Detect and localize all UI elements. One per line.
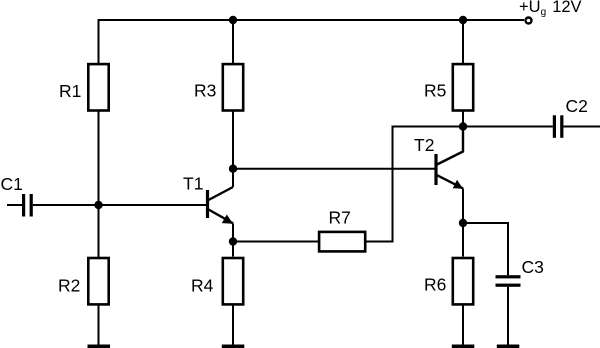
node: T1 emitter junction [229, 237, 237, 245]
svg-text:C1: C1 [1, 174, 23, 194]
ground (R4) [222, 345, 245, 348]
node: rail/R5 junction [459, 16, 467, 24]
svg-text:R7: R7 [329, 208, 351, 228]
ground (R6) [452, 345, 475, 348]
wire: output node to C2 [463, 126, 553, 128]
wire: T1 emitter to emitter node [232, 223, 234, 241]
node: rail/R3 junction [229, 16, 237, 24]
wire: R1 to input node [98, 111, 100, 205]
wire: C3 bottom lead [507, 287, 509, 345]
svg-text:R5: R5 [424, 81, 446, 101]
wire: emitter node to R7 [233, 241, 318, 243]
wire: R7 to output node feedback [367, 127, 464, 242]
wire: R3 to T1 collector node [232, 112, 234, 188]
svg-text:R6: R6 [424, 275, 446, 295]
svg-text:T1: T1 [183, 174, 203, 194]
svg-text:T2: T2 [414, 135, 434, 155]
resistor R3 [223, 64, 243, 110]
svg-text:C2: C2 [566, 96, 588, 116]
wire: rail to R3 [232, 19, 234, 63]
transistor T1 collector lead [209, 187, 234, 200]
svg-text:R3: R3 [194, 81, 216, 101]
wire: T2 emitter to emitter node [462, 188, 464, 223]
transistor T1 base bar [206, 190, 209, 218]
wire: C1 to input node [33, 204, 99, 206]
resistor R2 [88, 258, 108, 304]
capacitor C1 [22, 194, 33, 217]
ground (R2) [88, 345, 111, 348]
node: output junction [459, 122, 467, 130]
wire: R2 to ground [98, 306, 100, 346]
supply terminal [526, 18, 532, 24]
ground (C3) [497, 345, 520, 348]
svg-text:C3: C3 [522, 257, 544, 277]
svg-text:R4: R4 [191, 276, 214, 296]
wire: R4 to ground [232, 305, 234, 345]
wire: emitter node to R6 [462, 223, 464, 257]
wire: +12V supply rail [99, 20, 525, 64]
resistor R7 [319, 232, 365, 252]
wire: emitter node to R4 [232, 242, 234, 257]
wire: emitter node to C3 [463, 223, 508, 275]
resistor R6 [453, 258, 473, 304]
resistor R5 [453, 64, 473, 110]
node: T2 emitter junction [459, 219, 467, 227]
wire: C2 to output edge [563, 126, 600, 128]
transistor T2 emitter arrow [453, 180, 463, 189]
wire: rail to R5 [462, 19, 464, 63]
wire: R6 to ground [462, 305, 464, 345]
transistor T2 emitter lead [437, 175, 463, 188]
wire: input node to R2 [98, 205, 100, 257]
wire: input node to T1 base [99, 204, 208, 206]
resistor R1 [88, 64, 108, 110]
node: T1 collector junction [229, 165, 237, 173]
wire: input stub [7, 204, 22, 206]
transistor T2 base bar [434, 154, 437, 185]
transistor T1 emitter lead [209, 210, 234, 224]
capacitor C3 [496, 275, 521, 287]
svg-text:R2: R2 [58, 276, 80, 296]
capacitor C2 [553, 115, 564, 138]
wire: R5 to output node [462, 112, 464, 127]
transistor T1 emitter arrow [222, 215, 233, 224]
wire: T1 collector to T2 base [233, 168, 436, 170]
svg-text:+Ug 12V: +Ug 12V [519, 0, 582, 18]
node: input junction [94, 201, 102, 209]
svg-text:R1: R1 [59, 81, 81, 101]
transistor T2 collector lead [437, 127, 463, 165]
resistor R4 [223, 258, 243, 304]
